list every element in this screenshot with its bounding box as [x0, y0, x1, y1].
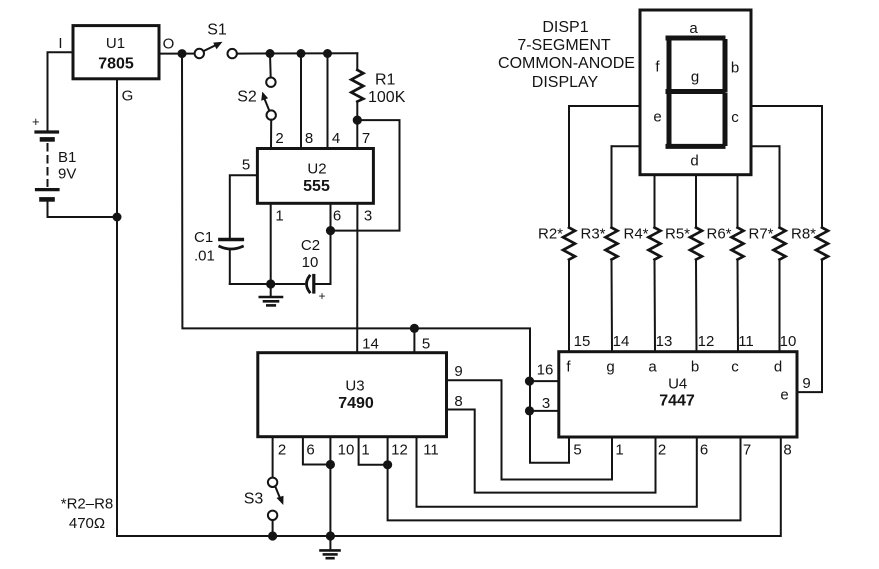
ground symbol on bottom rail	[321, 536, 340, 558]
wire R1 to U2 pin 7	[356, 120, 358, 148]
svg-text:C1: C1	[194, 229, 213, 246]
wire S3 to bottom rail	[272, 520, 274, 536]
svg-text:a: a	[689, 20, 698, 37]
junction S2 tap	[266, 49, 275, 58]
resistor R3	[580, 146, 617, 351]
wire C2 to pin6 drop	[314, 283, 331, 285]
decoder U4 7447	[559, 352, 797, 437]
resistor R1	[351, 53, 405, 120]
display DISP1 box	[640, 10, 751, 175]
svg-text:S3: S3	[244, 491, 264, 508]
svg-text:11: 11	[738, 333, 754, 350]
svg-text:d: d	[690, 153, 698, 170]
wire U2 pin 1	[270, 203, 272, 284]
svg-text:7447: 7447	[659, 393, 695, 410]
wire U4 pin 3 stub	[530, 410, 559, 412]
svg-text:555: 555	[303, 178, 330, 195]
junction U4 pin 3	[525, 406, 534, 415]
junction pin1 ground	[266, 279, 275, 288]
svg-text:7805: 7805	[98, 56, 134, 73]
svg-text:13: 13	[656, 333, 673, 350]
svg-text:470Ω: 470Ω	[69, 515, 105, 532]
battery B1	[32, 114, 76, 199]
wire U3 pin 10 to ground rail	[329, 437, 331, 536]
svg-text:6: 6	[306, 442, 314, 459]
wire pin7 to pin6 feedback loop	[331, 120, 400, 231]
capacitor C2	[301, 237, 326, 303]
svg-text:2: 2	[658, 442, 666, 459]
wire display d to R7	[751, 145, 780, 147]
svg-text:5: 5	[422, 336, 430, 353]
svg-text:R7*: R7*	[748, 226, 773, 243]
segment g	[668, 89, 723, 94]
svg-text:DISP1: DISP1	[542, 19, 588, 36]
resistor R6	[706, 175, 743, 352]
node A junction at U1 output	[178, 49, 187, 58]
segment b	[723, 42, 728, 90]
svg-text:4: 4	[332, 130, 340, 147]
wire U2 pin 3 output to U3 pin 14	[356, 203, 358, 352]
svg-text:10: 10	[302, 254, 319, 271]
wire U3 pin 6 to pin 10	[303, 437, 331, 465]
svg-text:COMMON-ANODE: COMMON-ANODE	[498, 55, 635, 72]
svg-text:3: 3	[364, 208, 372, 225]
capacitor C1	[194, 229, 242, 265]
svg-text:8: 8	[305, 130, 313, 147]
svg-text:a: a	[648, 359, 657, 376]
svg-text:10: 10	[338, 442, 355, 459]
wire +5V branch to U3 pin5 and U4	[182, 54, 569, 463]
timer U2 555	[257, 149, 373, 204]
junction pin8 tap	[297, 49, 306, 58]
junction S3 on bottom rail	[268, 531, 277, 540]
switch S1	[186, 22, 237, 59]
junction pin4 tap	[323, 49, 332, 58]
svg-text:7490: 7490	[338, 395, 374, 412]
wire display g to R3	[612, 145, 641, 147]
svg-text:d: d	[774, 359, 782, 376]
svg-text:6: 6	[333, 208, 341, 225]
junction pin6-pin10	[326, 460, 335, 469]
segment c	[723, 95, 728, 144]
svg-text:+: +	[319, 289, 326, 303]
junction pin1-pin12	[383, 460, 392, 469]
svg-text:12: 12	[391, 442, 408, 459]
svg-text:g: g	[606, 359, 614, 376]
counter U3 7490	[258, 353, 447, 437]
resistor R5	[665, 175, 702, 352]
svg-text:c: c	[731, 359, 739, 376]
junction on U2 pin 6	[326, 226, 335, 235]
wire U2 pin 8	[300, 54, 302, 149]
wire display f to R2	[569, 105, 640, 107]
wire bottom ground rail to U4 pin 8	[117, 437, 781, 536]
svg-text:9: 9	[454, 363, 462, 380]
resistor R8	[791, 106, 828, 260]
junction U4 pin 16	[525, 377, 534, 386]
svg-text:C2: C2	[301, 237, 320, 254]
svg-text:U4: U4	[668, 376, 687, 393]
svg-text:8: 8	[454, 393, 462, 410]
svg-text:5: 5	[242, 157, 250, 174]
svg-text:b: b	[731, 60, 739, 77]
svg-text:2: 2	[278, 442, 286, 459]
svg-text:7-SEGMENT: 7-SEGMENT	[517, 37, 611, 54]
svg-text:16: 16	[537, 362, 554, 379]
resistor R7	[748, 146, 785, 351]
svg-text:3: 3	[542, 395, 550, 412]
svg-text:B1: B1	[58, 149, 76, 166]
segment d	[668, 144, 723, 149]
wire U4 pin 9 to R8	[797, 260, 822, 393]
wire U2 pin 5 to C1	[230, 175, 258, 238]
svg-text:11: 11	[423, 442, 439, 459]
wire analog ground rail	[230, 283, 304, 285]
wire C1 to ground rail	[229, 249, 231, 284]
svg-text:U3: U3	[345, 378, 364, 395]
svg-text:*R2–R8: *R2–R8	[61, 496, 114, 513]
svg-text:S1: S1	[207, 22, 227, 39]
junction pin10 on bottom rail	[326, 531, 335, 540]
wire U4 pin 16 stub	[530, 380, 559, 382]
junction R1 bottom / pin 7	[353, 116, 362, 125]
resistor R2	[538, 106, 575, 352]
voltage regulator U1	[73, 26, 159, 79]
svg-text:10: 10	[780, 333, 797, 350]
svg-text:1: 1	[361, 442, 369, 459]
svg-text:R1: R1	[375, 72, 396, 89]
svg-text:7: 7	[743, 442, 751, 459]
wire U3 pin 9 to U4 pin 1	[447, 380, 613, 479]
wire display e to R8	[751, 105, 822, 107]
wire U2 pin 4	[327, 54, 329, 149]
wire U2 pin 6 down	[330, 203, 332, 284]
DISP1 title text	[498, 19, 635, 91]
wire U1 ground down to bottom rail	[116, 79, 118, 536]
svg-text:b: b	[691, 359, 699, 376]
svg-text:9V: 9V	[58, 166, 76, 183]
svg-text:R4*: R4*	[623, 226, 648, 243]
resistor R4	[623, 175, 660, 352]
svg-text:U1: U1	[106, 35, 125, 52]
wire U3 pin 1 to pin 12	[359, 437, 388, 465]
wire U3 pin 5	[413, 328, 415, 352]
svg-text:G: G	[122, 88, 134, 105]
svg-text:15: 15	[574, 333, 591, 350]
svg-text:e: e	[653, 109, 661, 126]
svg-text:7: 7	[362, 130, 370, 147]
svg-text:c: c	[731, 109, 739, 126]
junction battery minus on ground wire	[113, 213, 122, 222]
svg-text:O: O	[163, 36, 175, 53]
wire S2 to U2 pin 2	[270, 120, 272, 149]
svg-text:14: 14	[613, 333, 630, 350]
segment e	[667, 95, 672, 144]
segment a	[668, 36, 723, 41]
svg-text:S2: S2	[237, 89, 257, 106]
ground symbol under U2 pin 1	[260, 284, 282, 305]
svg-text:e: e	[780, 387, 788, 404]
svg-text:R6*: R6*	[706, 226, 731, 243]
svg-text:2: 2	[275, 130, 283, 147]
svg-text:14: 14	[362, 336, 379, 353]
svg-text:.01: .01	[194, 248, 215, 265]
switch S3	[244, 478, 284, 520]
wire U3 pin 11 to U4 pin 6	[417, 437, 697, 507]
wire U1 input from battery plus	[48, 52, 74, 130]
wire U1 output to node A	[159, 53, 182, 55]
svg-text:1: 1	[275, 208, 283, 225]
svg-text:I: I	[58, 35, 62, 52]
svg-text:U2: U2	[307, 161, 326, 178]
wire battery minus to ground net	[48, 202, 114, 217]
svg-text:12: 12	[698, 333, 715, 350]
svg-text:100K: 100K	[368, 89, 406, 106]
svg-text:DISPLAY: DISPLAY	[532, 74, 599, 91]
wire U3 pin 12 to U4 pin 7	[388, 437, 741, 521]
switch S2	[237, 54, 276, 120]
svg-text:R8*: R8*	[791, 226, 816, 243]
svg-text:+: +	[32, 114, 40, 129]
svg-text:9: 9	[802, 375, 810, 392]
svg-text:R2*: R2*	[538, 226, 563, 243]
svg-text:5: 5	[573, 442, 581, 459]
svg-text:6: 6	[700, 442, 708, 459]
svg-text:8: 8	[783, 442, 791, 459]
note R2-R8 value	[61, 496, 114, 533]
svg-text:1: 1	[615, 442, 623, 459]
svg-text:R3*: R3*	[580, 226, 605, 243]
svg-text:g: g	[691, 69, 699, 86]
wire U3 pin 8 to U4 pin 2	[447, 410, 656, 493]
segment f	[667, 42, 672, 90]
junction U3 pin 5 tap	[410, 324, 419, 333]
svg-text:R5*: R5*	[665, 226, 690, 243]
wire U3 pin 2 to S3	[272, 437, 274, 478]
wire +5V top rail	[237, 52, 357, 54]
